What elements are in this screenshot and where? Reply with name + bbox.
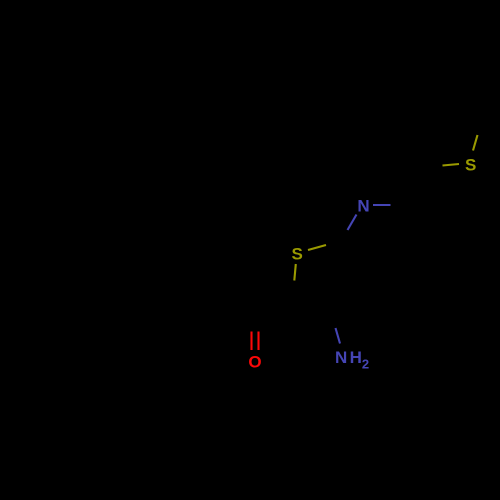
svg-text:H: H <box>350 348 362 367</box>
bond N-CH2 (blue half, horizontal right) <box>373 204 391 206</box>
svg-text:S: S <box>292 245 303 264</box>
svg-text:N: N <box>335 348 347 367</box>
bond S1-C2 (yellow half, down) <box>294 264 296 281</box>
bond S1-C5 (yellow half, up-right) <box>308 245 326 250</box>
svg-text:O: O <box>248 353 261 372</box>
svg-text:2: 2 <box>362 357 369 372</box>
bond N-C5 (blue half, down-left diagonal) <box>348 215 357 231</box>
svg-text:N: N <box>357 197 369 216</box>
svg-text:S: S <box>465 156 476 175</box>
bond S2-CH3 (yellow half, up-right) <box>473 135 478 151</box>
bond C=O double line 1 (red half) <box>250 332 252 351</box>
bond CH2-S2 (yellow half, left) <box>443 164 460 166</box>
bond C=O double line 2 (red half) <box>257 332 259 351</box>
bond C3-N amine (blue half, down) <box>336 328 341 344</box>
